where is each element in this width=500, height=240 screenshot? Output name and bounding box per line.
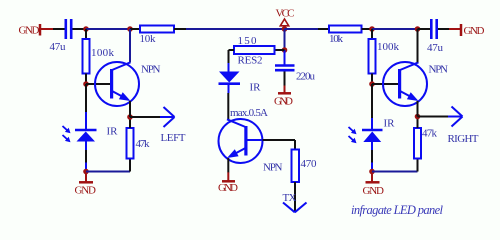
svg-text:TX: TX [283, 192, 297, 204]
svg-text:47u: 47u [427, 42, 444, 54]
svg-text:NPN: NPN [263, 162, 283, 174]
svg-text:47k: 47k [136, 138, 151, 150]
svg-text:GND: GND [19, 25, 40, 37]
svg-text:IR: IR [384, 118, 396, 130]
svg-text:100k: 100k [377, 41, 400, 53]
svg-text:NPN: NPN [429, 64, 449, 76]
svg-text:GND: GND [274, 96, 293, 108]
svg-text:IR: IR [250, 82, 262, 94]
svg-text:GND: GND [218, 182, 238, 194]
svg-text:47u: 47u [50, 41, 67, 53]
svg-text:max.0.5A: max.0.5A [230, 107, 268, 119]
svg-text:GND: GND [363, 185, 385, 197]
svg-text:RES2: RES2 [238, 55, 263, 67]
svg-text:NPN: NPN [141, 64, 161, 76]
svg-text:VCC: VCC [276, 8, 295, 20]
svg-text:GND: GND [464, 25, 485, 37]
svg-text:150: 150 [238, 35, 258, 47]
svg-text:10k: 10k [140, 33, 157, 45]
svg-text:RIGHT: RIGHT [448, 133, 479, 145]
svg-text:infragate LED panel: infragate LED panel [351, 203, 444, 217]
svg-text:470: 470 [301, 158, 318, 170]
svg-text:47k: 47k [422, 128, 438, 140]
svg-text:10k: 10k [329, 33, 344, 45]
svg-text:GND: GND [75, 185, 97, 197]
svg-text:LEFT: LEFT [161, 132, 186, 144]
svg-text:IR: IR [107, 126, 119, 138]
svg-text:100k: 100k [91, 47, 115, 59]
svg-text:220u: 220u [296, 71, 316, 83]
